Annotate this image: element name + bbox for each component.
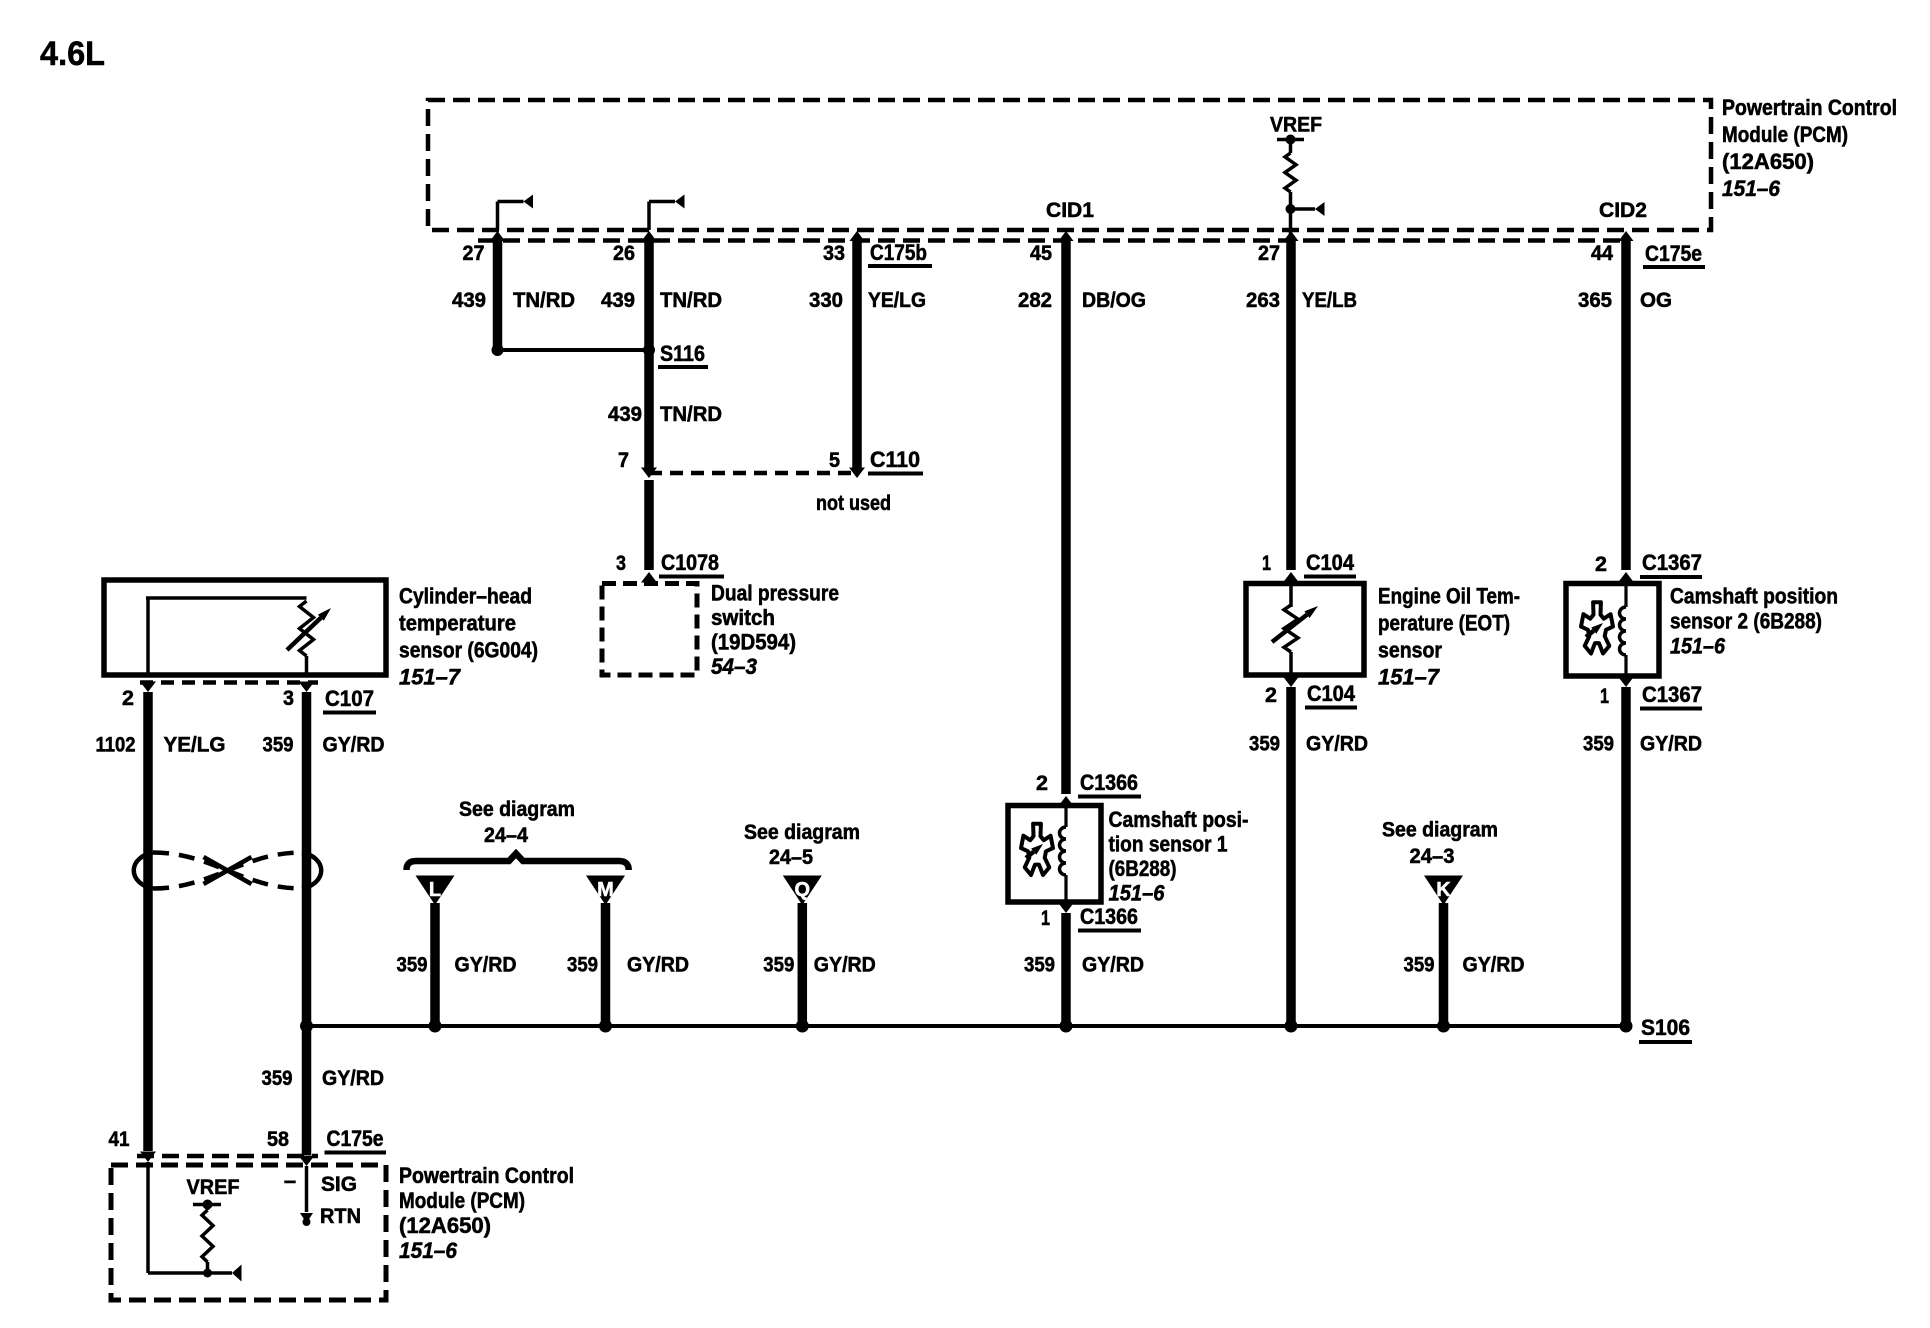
svg-text:C1366: C1366 bbox=[1080, 904, 1138, 929]
svg-text:1: 1 bbox=[1262, 551, 1271, 575]
svg-text:GY/RD: GY/RD bbox=[455, 953, 517, 977]
svg-text:33: 33 bbox=[823, 241, 845, 265]
svg-text:359: 359 bbox=[1583, 732, 1614, 756]
svg-text:2: 2 bbox=[1595, 552, 1607, 576]
svg-text:Camshaft posi-: Camshaft posi- bbox=[1109, 807, 1249, 832]
svg-text:OG: OG bbox=[1640, 288, 1672, 312]
svg-text:C175b: C175b bbox=[870, 240, 927, 265]
svg-text:not used: not used bbox=[816, 491, 891, 515]
svg-text:sensor (6G004): sensor (6G004) bbox=[399, 638, 538, 663]
svg-text:151–6: 151–6 bbox=[1722, 176, 1781, 201]
svg-text:C1367: C1367 bbox=[1642, 682, 1702, 707]
svg-text:GY/RD: GY/RD bbox=[814, 953, 876, 977]
svg-text:YE/LG: YE/LG bbox=[164, 733, 226, 757]
svg-text:439: 439 bbox=[601, 288, 635, 312]
svg-text:1102: 1102 bbox=[96, 733, 136, 757]
svg-text:C104: C104 bbox=[1307, 681, 1356, 706]
svg-text:439: 439 bbox=[608, 402, 642, 426]
svg-text:5: 5 bbox=[829, 448, 840, 472]
svg-text:TN/RD: TN/RD bbox=[660, 288, 722, 312]
svg-text:DB/OG: DB/OG bbox=[1082, 288, 1146, 312]
svg-text:RTN: RTN bbox=[320, 1204, 361, 1228]
svg-text:Engine Oil Tem-: Engine Oil Tem- bbox=[1378, 584, 1520, 609]
svg-text:perature (EOT): perature (EOT) bbox=[1378, 611, 1510, 636]
svg-text:359: 359 bbox=[1404, 953, 1435, 977]
svg-text:41: 41 bbox=[109, 1127, 130, 1151]
svg-text:359: 359 bbox=[567, 953, 598, 977]
svg-text:24–3: 24–3 bbox=[1410, 844, 1455, 868]
svg-text:S116: S116 bbox=[660, 341, 705, 366]
svg-text:7: 7 bbox=[618, 448, 629, 472]
svg-text:(12A650): (12A650) bbox=[399, 1213, 491, 1238]
svg-text:44: 44 bbox=[1591, 241, 1613, 265]
svg-text:switch: switch bbox=[711, 605, 775, 630]
svg-text:tion sensor 1: tion sensor 1 bbox=[1109, 832, 1228, 857]
svg-text:GY/RD: GY/RD bbox=[323, 733, 385, 757]
svg-text:S106: S106 bbox=[1641, 1015, 1690, 1040]
svg-text:GY/RD: GY/RD bbox=[627, 953, 689, 977]
svg-text:temperature: temperature bbox=[399, 611, 516, 636]
svg-text:24–4: 24–4 bbox=[484, 823, 528, 847]
svg-text:TN/RD: TN/RD bbox=[660, 402, 722, 426]
svg-text:Module (PCM): Module (PCM) bbox=[1722, 122, 1848, 147]
svg-text:Dual pressure: Dual pressure bbox=[711, 581, 839, 606]
svg-text:GY/RD: GY/RD bbox=[1640, 732, 1702, 756]
svg-text:C175e: C175e bbox=[327, 1126, 384, 1151]
svg-text:Powertrain Control: Powertrain Control bbox=[1722, 95, 1897, 120]
svg-text:151–6: 151–6 bbox=[399, 1238, 458, 1263]
svg-text:C110: C110 bbox=[870, 447, 920, 472]
svg-text:1: 1 bbox=[1041, 906, 1050, 930]
svg-text:TN/RD: TN/RD bbox=[513, 288, 575, 312]
svg-text:365: 365 bbox=[1578, 288, 1612, 312]
svg-text:4.6L: 4.6L bbox=[40, 35, 105, 73]
svg-text:(19D594): (19D594) bbox=[711, 630, 796, 655]
svg-text:27: 27 bbox=[463, 241, 485, 265]
svg-text:Module (PCM): Module (PCM) bbox=[399, 1188, 525, 1213]
svg-text:SIG: SIG bbox=[321, 1172, 357, 1196]
svg-text:GY/RD: GY/RD bbox=[1463, 953, 1525, 977]
svg-text:27: 27 bbox=[1258, 241, 1280, 265]
svg-text:GY/RD: GY/RD bbox=[322, 1066, 384, 1090]
svg-text:See diagram: See diagram bbox=[1382, 818, 1498, 842]
svg-text:151–7: 151–7 bbox=[1378, 665, 1441, 690]
svg-text:330: 330 bbox=[809, 288, 843, 312]
svg-text:58: 58 bbox=[267, 1127, 289, 1151]
svg-text:359: 359 bbox=[1024, 953, 1055, 977]
svg-text:C175e: C175e bbox=[1645, 241, 1702, 266]
svg-text:CID2: CID2 bbox=[1599, 199, 1647, 222]
svg-text:1: 1 bbox=[1600, 684, 1609, 708]
svg-text:3: 3 bbox=[616, 551, 626, 575]
svg-text:359: 359 bbox=[397, 953, 428, 977]
svg-text:sensor: sensor bbox=[1378, 638, 1442, 663]
svg-text:2: 2 bbox=[122, 686, 134, 710]
svg-text:sensor 2 (6B288): sensor 2 (6B288) bbox=[1670, 609, 1822, 634]
svg-text:Camshaft position: Camshaft position bbox=[1670, 584, 1838, 609]
svg-text:C1366: C1366 bbox=[1080, 770, 1138, 795]
svg-text:See diagram: See diagram bbox=[744, 820, 860, 844]
svg-text:YE/LB: YE/LB bbox=[1302, 288, 1357, 312]
svg-text:YE/LG: YE/LG bbox=[868, 288, 926, 312]
svg-text:–: – bbox=[284, 1168, 296, 1193]
svg-text:See diagram: See diagram bbox=[459, 797, 575, 821]
svg-text:359: 359 bbox=[263, 733, 294, 757]
svg-text:359: 359 bbox=[262, 1066, 293, 1090]
svg-text:GY/RD: GY/RD bbox=[1082, 953, 1144, 977]
svg-text:263: 263 bbox=[1246, 288, 1280, 312]
svg-text:2: 2 bbox=[1036, 771, 1048, 795]
svg-text:GY/RD: GY/RD bbox=[1306, 732, 1368, 756]
svg-text:3: 3 bbox=[283, 686, 294, 710]
svg-text:359: 359 bbox=[1249, 732, 1280, 756]
svg-text:151–6: 151–6 bbox=[1670, 634, 1726, 659]
svg-text:439: 439 bbox=[452, 288, 486, 312]
svg-text:(6B288): (6B288) bbox=[1109, 856, 1177, 881]
svg-text:C104: C104 bbox=[1306, 550, 1355, 575]
svg-text:L: L bbox=[429, 879, 441, 901]
svg-text:Cylinder–head: Cylinder–head bbox=[399, 584, 532, 609]
svg-text:VREF: VREF bbox=[187, 1176, 240, 1199]
svg-text:VREF: VREF bbox=[1270, 114, 1322, 137]
svg-text:282: 282 bbox=[1018, 288, 1052, 312]
svg-text:151–7: 151–7 bbox=[399, 665, 462, 690]
svg-text:151–6: 151–6 bbox=[1109, 881, 1166, 906]
svg-text:26: 26 bbox=[613, 241, 635, 265]
svg-text:54–3: 54–3 bbox=[711, 654, 757, 679]
svg-text:CID1: CID1 bbox=[1046, 199, 1094, 222]
svg-text:Powertrain Control: Powertrain Control bbox=[399, 1163, 574, 1188]
svg-text:C1367: C1367 bbox=[1642, 550, 1702, 575]
svg-text:24–5: 24–5 bbox=[769, 845, 813, 869]
svg-text:359: 359 bbox=[763, 953, 794, 977]
svg-text:2: 2 bbox=[1265, 683, 1277, 707]
svg-text:(12A650): (12A650) bbox=[1722, 149, 1814, 174]
svg-text:C1078: C1078 bbox=[661, 550, 719, 575]
svg-text:45: 45 bbox=[1030, 241, 1052, 265]
svg-text:C107: C107 bbox=[325, 686, 374, 711]
